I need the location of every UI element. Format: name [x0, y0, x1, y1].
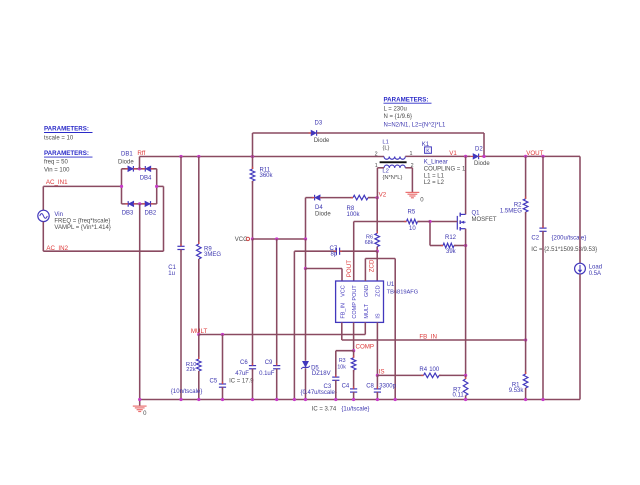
junction rail-C9 [275, 398, 278, 401]
junction R4-R7-source [464, 374, 467, 377]
junction rail-C8 [376, 398, 379, 401]
junction rail-C6 [251, 398, 254, 401]
wire R1 bottom [525, 388, 527, 400]
wire D5 column VCC row to pin branch [305, 239, 307, 269]
wire R2 to FB_IN node [525, 212, 527, 340]
wire D4 to R8 [321, 197, 353, 199]
wire V1 from L1 to D2 [405, 155, 470, 157]
wire R12 to source column [454, 245, 466, 247]
resistor R4 [424, 373, 440, 378]
svg-text:2: 2 [375, 151, 378, 157]
svg-text:DB1: DB1 [121, 152, 133, 158]
svg-text:68k: 68k [365, 240, 374, 246]
junction COMP node [352, 349, 355, 352]
svg-text:U1: U1 [387, 282, 395, 288]
junction bridge left mid [120, 185, 123, 188]
wire IS row to R4 [377, 374, 423, 376]
svg-text:Diode: Diode [474, 161, 490, 167]
wire COMP pin drop [353, 322, 355, 350]
wire R6 bottom to ZCD node [376, 247, 378, 252]
resistor R10 [197, 359, 202, 371]
wire C1 column bottom [180, 250, 182, 400]
wire bridge right edge [156, 169, 158, 204]
svg-text:Diode: Diode [314, 138, 330, 144]
svg-text:3MEG: 3MEG [204, 252, 221, 258]
wire C3 column top [335, 351, 337, 377]
wire L2 right lead [405, 167, 412, 169]
svg-text:Diode: Diode [118, 159, 134, 165]
junction FB_IN-R2R1 [524, 338, 527, 341]
wire C2 bottom [542, 231, 544, 399]
wire C3 bottom [335, 380, 337, 399]
svg-text:PARAMETERS:: PARAMETERS: [384, 96, 429, 103]
wire Q1 drain column [465, 156, 467, 214]
svg-text:R12: R12 [445, 235, 457, 241]
junction rail-GNDpin [394, 398, 397, 401]
svg-text:IS: IS [379, 368, 385, 375]
svg-text:PARAMETERS:: PARAMETERS: [44, 126, 89, 133]
wire bridge left edge [121, 169, 123, 204]
svg-text:L1: L1 [382, 139, 388, 145]
svg-text:R5: R5 [408, 210, 416, 216]
wire ground rail [140, 399, 580, 401]
wire Vin top stem [42, 186, 44, 210]
junction Rff-R11-D3 [251, 155, 254, 158]
junction ZCD node [376, 250, 379, 253]
wire MULT node to R10 [198, 335, 200, 360]
diode D4 [315, 195, 320, 200]
svg-text:POUT: POUT [346, 260, 353, 277]
voltage source Vin [38, 210, 49, 221]
wire D5 bottom [305, 368, 307, 399]
wire MULT net [199, 334, 365, 336]
wire POUT pin riser [353, 222, 355, 282]
wire Rff rail [140, 156, 385, 158]
svg-text:ZCD: ZCD [375, 285, 381, 296]
svg-text:360k: 360k [260, 173, 274, 179]
wire C7 ground column [293, 251, 295, 399]
wire R7 bottom [465, 396, 467, 400]
svg-text:8p: 8p [331, 252, 338, 258]
wire C9 column top [276, 239, 278, 366]
wire MULT pin drop [364, 322, 366, 334]
svg-text:10k: 10k [337, 364, 346, 370]
wire C9 bottom [276, 369, 278, 400]
capacitor C7 [335, 248, 337, 255]
svg-text:DB2: DB2 [145, 210, 157, 216]
wire VCC pin drop to U1 [341, 269, 343, 282]
wire C5 column top [222, 335, 224, 384]
resistor R8 [353, 195, 368, 200]
svg-text:Load: Load [589, 264, 602, 270]
wire bridge bottom edge [122, 203, 157, 205]
wire D5 column from D4 corner to VCC row [305, 198, 307, 239]
svg-text:0.11: 0.11 [453, 393, 465, 399]
op-amp U1 TB6819AFG box [336, 281, 384, 322]
wire D3 branch left riser [252, 133, 254, 157]
svg-text:IC = {2.51*1509.53/9.53}: IC = {2.51*1509.53/9.53} [531, 247, 597, 253]
diode DB1 [128, 166, 133, 171]
svg-text:DB3: DB3 [122, 210, 134, 216]
wire ZCD pin riser [376, 251, 378, 281]
svg-text:V2: V2 [379, 192, 387, 199]
svg-text:Vin = 100: Vin = 100 [44, 168, 70, 174]
wire IS pin drop [376, 322, 378, 375]
resistor R1 [523, 374, 528, 388]
capacitor C3 [332, 376, 339, 378]
resistor R6 [375, 233, 380, 246]
junction rail-C3 [334, 398, 337, 401]
wire AC_IN1 from Vin to bridge [43, 185, 121, 187]
wire L2 right pin down to ground [411, 168, 413, 192]
svg-text:FB_IN: FB_IN [419, 334, 437, 341]
svg-text:22k: 22k [186, 367, 195, 373]
capacitor C1 [177, 245, 184, 247]
capacitor C6 [249, 365, 256, 367]
svg-text:Vin: Vin [54, 212, 63, 218]
svg-text:IS: IS [375, 313, 381, 319]
wire Load bottom [579, 274, 581, 400]
wire D3 branch top right [317, 132, 484, 134]
svg-text:N=N2/N1, L2={N^2}*L1: N=N2/N1, L2={N^2}*L1 [384, 123, 447, 129]
junction MULT-R9R10 [197, 333, 200, 336]
junction rail-R1 [524, 398, 527, 401]
wire GND pin over-route [365, 258, 395, 260]
svg-text:0.5A: 0.5A [589, 271, 601, 277]
wire VOUT rail corner to Load [579, 156, 581, 263]
wire COMP to C3 branch [336, 350, 354, 352]
junction bridge right mid [155, 185, 158, 188]
junction VCC pin branch [304, 267, 307, 270]
svg-text:D2: D2 [475, 147, 483, 153]
svg-text:Diode: Diode [315, 212, 331, 218]
svg-text:V1: V1 [449, 150, 457, 157]
svg-text:IC = 3.74: IC = 3.74 [312, 406, 337, 412]
capacitor C9 [273, 365, 280, 367]
wire COMP node to R3 [353, 351, 355, 358]
junction rail-D5 [304, 398, 307, 401]
wire D5 column down to zener [305, 269, 307, 361]
wire R8 to V2 [368, 197, 377, 199]
wire D3 branch right riser [483, 133, 485, 156]
wire AC_IN2 riser to bridge right [163, 186, 165, 251]
svg-text:GND: GND [364, 285, 370, 297]
svg-text:{200u/tscale}: {200u/tscale} [552, 235, 587, 241]
svg-text:R4: R4 [419, 367, 427, 373]
inductor L2 [384, 165, 405, 168]
wire C1 column top [180, 157, 182, 247]
wire VCC node to C6 [252, 239, 254, 366]
junction rail-C4 [352, 398, 355, 401]
wire FB_IN net [342, 339, 526, 341]
svg-text:9.53k: 9.53k [509, 388, 525, 394]
svg-text:K: K [426, 148, 430, 154]
junction bridge bottom center [138, 202, 141, 205]
wire L2 left lead [377, 167, 384, 169]
resistor R3 [351, 358, 356, 370]
svg-text:C5: C5 [210, 379, 218, 385]
wire D2 to VOUT corner [482, 155, 581, 157]
wire AC_IN2 [43, 250, 163, 252]
junction V1-Q1 drain [464, 155, 467, 158]
resistor R9 [197, 244, 202, 259]
zener diode D5 [303, 361, 309, 367]
wire R10 bottom [198, 371, 200, 400]
resistor R12 [443, 243, 454, 248]
svg-text:POUT: POUT [352, 285, 358, 301]
svg-text:{L}: {L} [382, 146, 389, 152]
current source Load [575, 263, 586, 274]
svg-text:C6: C6 [240, 360, 248, 366]
junction VCC-R11-C6 [251, 237, 254, 240]
junction gate node [428, 220, 431, 223]
wire gate row from POUT corner [354, 221, 407, 223]
svg-text:L = 230u: L = 230u [384, 106, 407, 112]
ground 0 at L2 [406, 191, 420, 193]
svg-text:1.5MEG: 1.5MEG [500, 208, 522, 214]
svg-text:47uF: 47uF [235, 371, 249, 377]
inductor L1 [384, 157, 405, 160]
svg-text:{10n/tscale}: {10n/tscale} [171, 389, 202, 395]
resistor R5 [407, 219, 418, 224]
wire bridge top edge [122, 168, 157, 170]
capacitor C2 [539, 227, 546, 229]
wire R3 to C4 [353, 370, 355, 389]
svg-text:Q1: Q1 [472, 211, 481, 217]
svg-text:C8: C8 [366, 384, 374, 390]
wire D3 branch top left [253, 132, 311, 134]
wire gate riser to R12 [429, 222, 431, 246]
capacitor C5 [219, 383, 226, 385]
junction Rff-R9 [197, 155, 200, 158]
wire R5 to gate node [418, 221, 431, 223]
svg-text:VCC: VCC [341, 285, 347, 297]
junction bridge top center [138, 167, 141, 170]
svg-text:FREQ = {freq*tscale}: FREQ = {freq*tscale} [54, 219, 110, 225]
junction VCC row right end [304, 237, 307, 240]
junction rail-C5 [221, 398, 224, 401]
wire FB_IN node to R1 [525, 340, 527, 374]
svg-text:MULT: MULT [364, 303, 370, 318]
wire R9 to MULT node [198, 259, 200, 335]
resistor R7 [465, 375, 467, 379]
junction Rff-C1 [179, 155, 182, 158]
svg-text:COMP: COMP [356, 343, 375, 350]
wire VCC row [253, 238, 306, 240]
diode DB4 [146, 166, 151, 171]
diode D3 [311, 130, 316, 135]
svg-text:C4: C4 [342, 384, 350, 390]
wire Q1 source column [465, 229, 467, 376]
svg-text:100k: 100k [347, 212, 361, 218]
junction V2 [376, 196, 379, 199]
junction VOUT-C2 [541, 155, 544, 158]
svg-text:VAMPL = {Vin*1.414}: VAMPL = {Vin*1.414} [54, 225, 110, 231]
wire C5 column bottom [222, 387, 224, 399]
junction rail-C7gnd [293, 398, 296, 401]
svg-text:ZCD: ZCD [368, 259, 375, 272]
svg-text:0.1uF: 0.1uF [259, 371, 275, 377]
junction D3 bypass at D2 cathode [482, 155, 485, 158]
wire C7 row [294, 250, 336, 252]
svg-text:39k: 39k [446, 249, 457, 255]
wire R11 to VCC node [252, 181, 254, 239]
svg-text:N = {1/9.6}: N = {1/9.6} [384, 114, 413, 120]
svg-text:freq = 50: freq = 50 [44, 159, 69, 165]
svg-text:{0.47u/tscale}: {0.47u/tscale} [301, 390, 337, 396]
svg-text:D3: D3 [315, 121, 323, 127]
junction rail-C2 [541, 398, 544, 401]
diode DB2 [145, 201, 150, 206]
wire L2 left pin down to V2 [376, 168, 378, 198]
svg-text:L2: L2 [382, 169, 388, 175]
svg-text:L1 = L1: L1 = L1 [424, 174, 445, 180]
svg-text:L2 = L2: L2 = L2 [424, 180, 445, 186]
wire Vin bottom stem [42, 222, 44, 252]
junction VOUT-R2 [524, 155, 527, 158]
svg-text:AC_IN1: AC_IN1 [46, 179, 68, 186]
svg-text:COUPLING = 1: COUPLING = 1 [424, 166, 466, 172]
svg-text:TB6819AFG: TB6819AFG [387, 289, 419, 295]
junction R12-source [464, 244, 467, 247]
svg-text:10: 10 [409, 226, 416, 232]
junction rail-C1 [179, 398, 182, 401]
svg-text:VOUT: VOUT [526, 150, 543, 157]
junction IS node [376, 374, 379, 377]
wire R9 column top [198, 157, 200, 245]
wire D4 corner from D5 column [306, 197, 314, 199]
wire R4 to source node [439, 374, 466, 376]
junction rail-R7 [464, 398, 467, 401]
svg-text:1u: 1u [168, 271, 175, 277]
resistor R2 [523, 199, 528, 212]
junction rail-R10 [197, 398, 200, 401]
diode D2 [473, 154, 478, 159]
wire C6 bottom [252, 369, 254, 400]
svg-text:tscale = 10: tscale = 10 [44, 135, 74, 141]
svg-text:3300p: 3300p [379, 384, 396, 390]
wire FB_IN pin drop [341, 322, 343, 340]
wire V2 down to R6 [376, 198, 378, 234]
svg-text:IC = 17.9: IC = 17.9 [229, 379, 254, 385]
svg-text:K_Linear: K_Linear [424, 159, 448, 165]
svg-text:DZ18V: DZ18V [312, 371, 331, 377]
wire C2 column top [542, 156, 544, 228]
diode DB3 [129, 201, 134, 206]
svg-text:C2: C2 [531, 235, 539, 241]
svg-text:DB4: DB4 [140, 175, 152, 181]
junction rail-bridge [138, 398, 141, 401]
wire GND pin down to ground rail [394, 259, 396, 400]
transformer core [380, 161, 407, 163]
wire Q1 gate lead [430, 221, 457, 223]
svg-text:FB_IN: FB_IN [341, 303, 347, 319]
ground 0 main [139, 400, 141, 406]
resistor R11 [250, 169, 255, 181]
svg-text:PARAMETERS:: PARAMETERS: [44, 150, 89, 157]
wire VCC pin branch horizontal [306, 268, 343, 270]
svg-text:100: 100 [429, 367, 440, 373]
wire R2 column top [525, 156, 527, 198]
svg-text:MOSFET: MOSFET [472, 217, 497, 223]
svg-text:COMP: COMP [352, 302, 358, 319]
capacitor C8 [376, 375, 378, 389]
capacitor C4 [350, 388, 357, 390]
transistor Q1 MOSFET [460, 213, 465, 215]
wire GND pin riser [364, 259, 366, 282]
junction MULT-C5 [221, 333, 224, 336]
wire C4 bottom [353, 392, 355, 399]
svg-text:D4: D4 [315, 205, 323, 211]
svg-text:R3: R3 [339, 358, 346, 364]
svg-text:{N*N*L}: {N*N*L} [382, 175, 402, 181]
wire R11 top [252, 157, 254, 170]
svg-text:{1u/tscale}: {1u/tscale} [341, 406, 369, 412]
svg-text:C9: C9 [265, 360, 273, 366]
wire bridge top stem to Rff rail [139, 157, 141, 169]
wire bridge bottom stem to ground rail [139, 204, 141, 400]
junction VCC-C9 [275, 237, 278, 240]
